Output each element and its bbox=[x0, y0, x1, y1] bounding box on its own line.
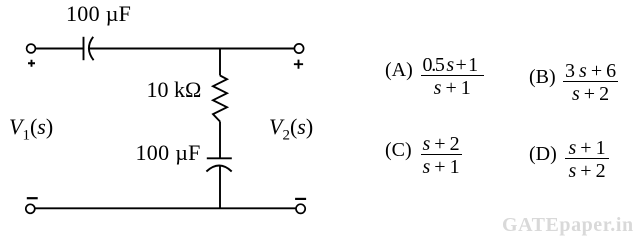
option (B) label bbox=[529, 67, 556, 87]
label R1 value 10 kOhm bbox=[147, 79, 202, 101]
terminal V2+ (top-right open circle) bbox=[294, 44, 303, 53]
capacitor C2 curved plate bbox=[206, 166, 231, 172]
plus sign at V1+ terminal bbox=[28, 60, 35, 67]
wire: C2 curved plate down to bottom rail bbox=[219, 165, 221, 208]
wire: bottom rail from V1- to V2- bbox=[35, 207, 296, 209]
option (A) fraction (0.5s+1)/(s+1) bbox=[421, 55, 484, 98]
terminal V2- (bottom-right open circle) bbox=[296, 204, 305, 213]
option (B) fraction (3s+6)/(s+2) bbox=[563, 61, 618, 104]
terminal V1+ (top-left open circle) bbox=[27, 44, 36, 53]
plus sign at V2+ terminal bbox=[294, 60, 303, 69]
capacitor C2 straight plate bbox=[207, 157, 232, 159]
label V2(s) output voltage bbox=[269, 116, 313, 143]
resistor R1 zigzag bbox=[213, 76, 227, 122]
wire: resistor R1 to C2 top plate bbox=[219, 122, 221, 159]
option (A) label bbox=[385, 60, 413, 80]
label V1(s) input voltage bbox=[9, 116, 53, 143]
option (C) label bbox=[385, 140, 412, 160]
label C2 value 100 uF bbox=[136, 142, 201, 164]
label C1 value 100 uF bbox=[66, 3, 131, 25]
capacitor C1 straight plate bbox=[83, 37, 85, 60]
minus sign at V1- terminal bbox=[27, 197, 38, 199]
minus sign at V2- terminal bbox=[295, 198, 306, 200]
terminal V1- (bottom-left open circle) bbox=[26, 204, 35, 213]
option (D) label bbox=[529, 144, 557, 164]
wire: C1 curved plate to V2+ terminal (top rail) bbox=[89, 48, 295, 50]
wire: top rail junction down to resistor R1 bbox=[219, 49, 221, 76]
option (C) fraction (s+2)/(s+1) bbox=[421, 134, 462, 177]
watermark GATEpaper.in bbox=[502, 215, 634, 235]
wire: V1+ terminal to C1 left plate bbox=[35, 48, 83, 50]
option (D) fraction (s+1)/(s+2) bbox=[565, 138, 609, 181]
capacitor C1 curved plate bbox=[89, 37, 94, 60]
